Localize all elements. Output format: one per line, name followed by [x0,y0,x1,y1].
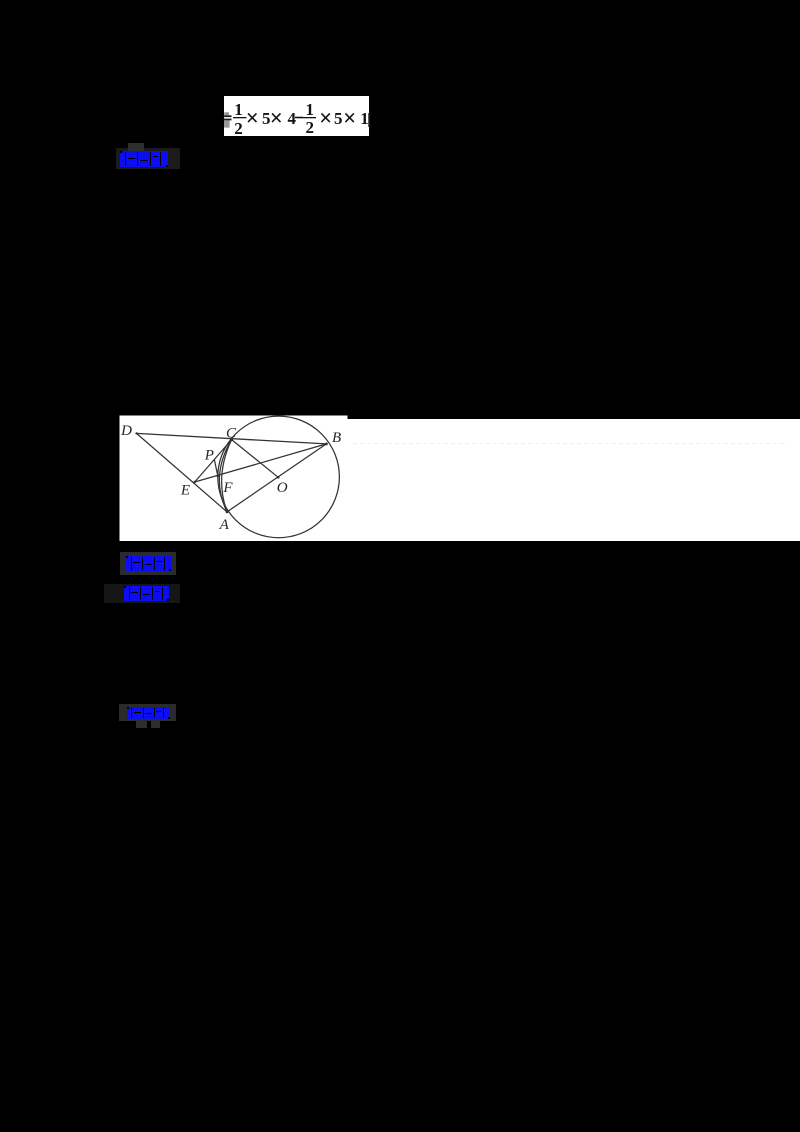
wire B-A through O [227,444,326,512]
svg-text:A: A [219,517,230,533]
blue label 4 (y707) [0,0,800,1]
wire E-B through F [195,444,327,482]
svg-text:1: 1 [234,100,243,119]
node E [194,481,196,483]
formula: times 5 times 4 [246,106,303,131]
formula: times 5 times 1, clipped mark [319,106,369,131]
wire D-B through C [137,433,327,444]
halo behind label 1 [116,148,180,169]
dark box behind label 2 [120,552,176,575]
svg-text:1: 1 [360,109,369,128]
formula: second fraction 1/2 [303,100,317,137]
node C [230,438,233,441]
formula: first fraction 1/2 [233,100,247,138]
dark box behind label 4 [119,704,176,721]
svg-text:1: 1 [306,100,315,119]
svg-text:O: O [277,480,288,496]
svg-text:C: C [226,426,237,442]
svg-text:×: × [319,106,332,131]
svg-text:4: 4 [288,109,297,128]
arc C-A inner 1 [219,440,231,512]
svg-text:×: × [270,106,283,131]
svg-text:B: B [332,430,341,446]
remnant mark above label 1 [128,143,144,151]
arc C-A inner 2 [222,440,232,512]
blue label 2 (y556) [0,0,800,1]
svg-text:E: E [180,483,190,499]
svg-text:2: 2 [306,118,315,137]
circle O [218,416,340,538]
wire D-A through E [137,433,228,512]
wire C-O [232,440,279,478]
gray remnant squares under label 4 [136,721,147,728]
formula image box [224,96,370,136]
node O [277,476,280,479]
formula: leading equals (clipped) [224,112,232,127]
svg-text:D: D [120,423,132,439]
node D [135,432,137,434]
node F [217,475,220,478]
node B [325,443,328,446]
svg-text:F: F [222,480,233,496]
svg-text:×: × [343,106,356,131]
labels [120,423,341,533]
figure white box right strip [347,419,800,541]
wire P-F [214,460,217,476]
svg-text:P: P [204,448,214,464]
blue label 1 (y151) [0,0,800,1]
svg-text:×: × [246,106,259,131]
wire E-C through P [195,440,232,482]
svg-text:5: 5 [334,109,343,128]
blue label 3 (y586) [0,0,800,1]
halo behind label 3 [104,584,180,603]
svg-text:2: 2 [234,119,243,138]
faint dotted rule [353,443,788,445]
figure white box left part [120,416,348,542]
node A [226,511,229,514]
